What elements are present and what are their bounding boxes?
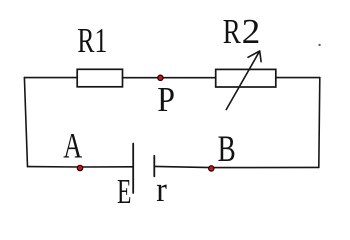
battery cell E: negative plate (short) (153, 156, 155, 177)
resistor R1 (77, 69, 122, 87)
wire: left vertical (24, 78, 27, 167)
node A (77, 165, 82, 170)
svg-text:2: 2 (242, 12, 261, 50)
wire: node B to battery plate r (154, 166, 211, 167)
wire: node A to bottom-left corner (28, 166, 81, 168)
svg-text:R: R (223, 12, 241, 51)
svg-text:E: E (117, 174, 131, 211)
svg-text:P: P (157, 81, 175, 120)
wire: bottom-right corner to node B (211, 166, 318, 168)
wire: R1 to R2 through node P (123, 77, 216, 79)
wire: top-left segment (left corner to R1) (24, 77, 77, 79)
svg-text:R1: R1 (77, 21, 107, 60)
node B (209, 166, 214, 171)
wire: R2 to top-right corner (276, 77, 320, 79)
rheostat R2 wiper arrow (226, 51, 261, 110)
svg-text:B: B (218, 128, 236, 169)
rheostat R2 (216, 69, 276, 87)
node P (158, 75, 163, 80)
wire: battery plate E to node A (80, 166, 133, 168)
battery cell E: positive plate (long) (132, 144, 134, 194)
stray speck (319, 44, 321, 46)
wire: right vertical (319, 78, 320, 168)
svg-text:A: A (63, 125, 82, 165)
svg-text:r: r (156, 171, 167, 210)
